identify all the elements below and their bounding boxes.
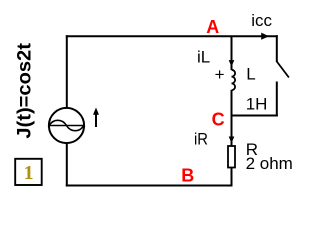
svg-text:1H: 1H [246,95,268,114]
svg-text:B: B [181,166,194,186]
resistor R body [228,146,235,168]
svg-text:L: L [246,65,255,84]
icc arrow head on top wire [261,33,269,40]
switch blade (open) [277,62,289,78]
wire bottom horizontal [66,185,233,187]
wire top horizontal from source to switch branch [66,35,278,37]
current source J1 chord line [49,125,84,127]
current source J1 sine wave [49,120,83,130]
wire inductor branch upper (node A down to coil) [231,36,233,70]
inductor L coil [232,70,236,90]
svg-text:C: C [212,109,225,129]
svg-text:1: 1 [24,162,34,184]
wire left vertical lower (source bottom lead) [66,143,68,187]
figure number box [15,159,42,185]
iL current arrow head [229,60,235,67]
wire resistor to bottom wire [231,168,233,187]
svg-text:J(t)=cos2t: J(t)=cos2t [14,42,35,138]
iR current arrow head [229,137,235,144]
wire right vertical lower (switch to node C wire) [276,82,278,117]
svg-text:2 ohm: 2 ohm [246,154,293,173]
svg-text:iR: iR [194,130,208,149]
svg-text:icc: icc [251,11,272,30]
wire inductor branch lower (coil through node C to resistor) [231,90,233,146]
wire right vertical upper (corner down to switch pivot) [276,35,278,62]
svg-text:+: + [215,65,225,84]
current source J1 circle [49,108,84,143]
wire node C horizontal [231,115,278,117]
svg-text:iL: iL [197,47,210,66]
source direction arrow (up) line [95,113,97,127]
source direction arrow head [93,108,99,115]
wire left vertical upper (source top lead) [66,35,68,108]
svg-text:A: A [206,17,219,37]
